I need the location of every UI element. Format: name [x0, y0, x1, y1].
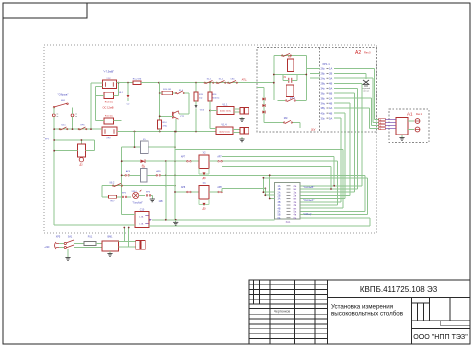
svg-text:К1.1: К1.1 [179, 90, 184, 92]
svg-text:МК: МК [284, 116, 288, 120]
svg-text:высоковольтных столбов: высоковольтных столбов [331, 311, 404, 318]
svg-text:38у: 38у [321, 96, 326, 100]
svg-text:К2-1: К2-1 [207, 78, 212, 80]
svg-text:ХР5: ХР5 [56, 236, 61, 239]
svg-text:1.2А: 1.2А [139, 223, 144, 226]
svg-text:ООО "НПП ТЭЗ": ООО "НПП ТЭЗ" [413, 333, 468, 341]
svg-text:2.4А: 2.4А [139, 215, 144, 218]
svg-text:26у: 26у [321, 67, 326, 71]
svg-text:R11 10к: R11 10к [105, 116, 113, 118]
svg-text:КВПБ.411725.108 Э3: КВПБ.411725.108 Э3 [360, 285, 438, 294]
svg-text:A2: A2 [355, 50, 361, 56]
svg-text:2А: 2А [329, 96, 332, 100]
svg-text:2Ву: 2Ву [321, 82, 326, 86]
svg-text:4В: 4В [329, 82, 332, 86]
svg-text:R1-2 1М: R1-2 1М [133, 79, 142, 81]
svg-text:12В: 12В [159, 201, 164, 203]
svg-text:К6.2: К6.2 [110, 182, 115, 185]
svg-text:4В: 4В [329, 101, 332, 105]
svg-text:R14 10к: R14 10к [105, 102, 113, 104]
svg-text:28у: 28у [321, 72, 326, 76]
svg-text:АР7: АР7 [217, 156, 222, 159]
svg-text:х1: х1 [380, 128, 382, 130]
svg-text:"Голубой": "Голубой" [132, 202, 143, 205]
svg-text:4А: 4А [329, 106, 332, 110]
svg-text:АР7: АР7 [181, 156, 186, 159]
svg-text:Rev.0: Rev.0 [364, 51, 371, 55]
svg-text:сигнал: сигнал [363, 91, 370, 93]
svg-text:"Обрыв": "Обрыв" [58, 93, 69, 97]
svg-text:36у: 36у [321, 91, 326, 95]
svg-text:ХА1: ХА1 [286, 221, 291, 224]
svg-text:40у: 40у [321, 111, 326, 115]
svg-text:5А: 5А [329, 116, 332, 120]
svg-text:6А: 6А [278, 217, 281, 220]
svg-text:К4.1: К4.1 [61, 125, 66, 127]
svg-text:30у: 30у [321, 116, 326, 120]
svg-text:XP1.1: XP1.1 [322, 62, 330, 66]
svg-text:FU1: FU1 [88, 236, 93, 239]
svg-text:С10: С10 [140, 208, 145, 211]
svg-text:"Общ": "Общ" [303, 212, 312, 216]
svg-text:3Ау: 3Ау [321, 101, 326, 105]
svg-text:2В: 2В [329, 72, 332, 76]
svg-text:АГЦ: АГЦ [242, 79, 247, 82]
svg-text:"СильВ": "СильВ" [303, 185, 314, 189]
svg-text:6В: 6В [329, 91, 332, 95]
svg-text:500Ом: 500Ом [212, 98, 219, 100]
svg-text:"+7,5мВ": "+7,5мВ" [103, 70, 114, 74]
svg-text:10к: 10к [199, 98, 202, 100]
svg-text:34у: 34у [321, 87, 326, 91]
svg-text:~220: ~220 [44, 246, 50, 249]
svg-text:К1-1: К1-1 [219, 78, 224, 80]
svg-text:3А: 3А [329, 76, 332, 80]
svg-text:Ш202 10Ом: Ш202 10Ом [220, 111, 232, 113]
svg-text:ОС 12мВ: ОС 12мВ [102, 106, 113, 110]
svg-text:АР8: АР8 [181, 186, 186, 189]
svg-text:470к: 470к [163, 126, 168, 128]
svg-text:ВМ1: ВМ1 [108, 236, 114, 239]
svg-text:Rev.1: Rev.1 [416, 113, 423, 116]
svg-text:2Ау: 2Ау [321, 76, 326, 80]
svg-text:Ш202 (тип): Ш202 (тип) [219, 131, 230, 133]
svg-text:Установка измерения: Установка измерения [331, 304, 393, 311]
svg-text:"СильА": "СильА" [303, 198, 314, 202]
svg-text:V1.4: V1.4 [221, 124, 227, 127]
svg-text:3Ву: 3Ву [321, 106, 326, 110]
svg-text:4В: 4В [329, 111, 332, 115]
svg-text:SА1: SА1 [68, 236, 73, 239]
svg-text:Чертенков: Чертенков [274, 310, 291, 314]
svg-text:VD14: VD14 [131, 191, 137, 193]
svg-text:5А: 5А [329, 87, 332, 91]
svg-text:R10 1М: R10 1М [163, 89, 171, 91]
svg-text:A1: A1 [407, 112, 413, 117]
svg-text:1А: 1А [329, 67, 332, 71]
